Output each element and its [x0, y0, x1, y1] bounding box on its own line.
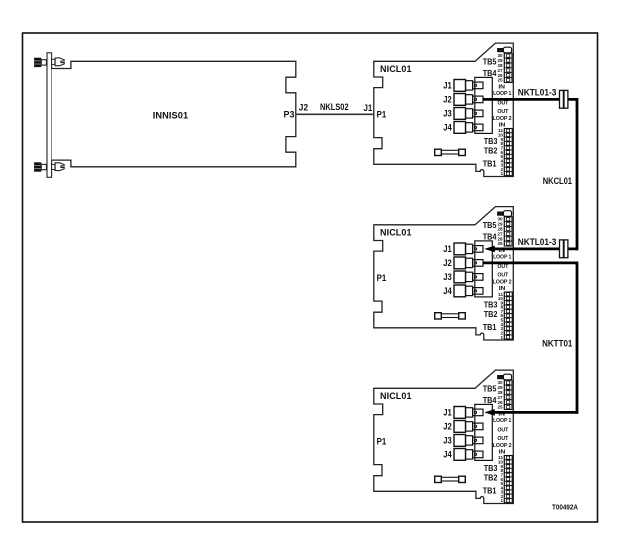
module NICL01 #2 outline	[374, 207, 514, 340]
wire: NKTL01-3 cable into NICL01#2 J1 (IN LOOP 1)	[490, 247, 578, 250]
svg-text:NKLS02: NKLS02	[320, 102, 349, 112]
wire: NKCL01 trunk cable (vertical)	[576, 98, 579, 250]
terminal block strip TB3/TB2/TB1 (terminals 11-1) #1	[504, 129, 512, 176]
svg-text:1: 1	[500, 498, 503, 503]
fuse F2 (bottom) #3	[435, 476, 466, 482]
terminal numbers 30-25 #2	[497, 217, 503, 247]
svg-text:J4: J4	[443, 286, 452, 296]
connector jack J4 receptacle #1	[473, 124, 483, 131]
connector jack J1 receptacle #2	[473, 246, 483, 253]
connector plug J4 #3	[454, 449, 477, 461]
svg-text:TB1: TB1	[483, 487, 497, 496]
connector plug J2 #1	[454, 94, 477, 106]
arrowhead into NICL01#3 J1	[484, 409, 495, 416]
module INNIS01 outline	[52, 61, 296, 167]
svg-text:J1: J1	[443, 408, 452, 418]
svg-text:NICL01: NICL01	[380, 391, 412, 402]
connector mounting panel #3	[475, 404, 493, 460]
connector plug J2 #2	[454, 257, 477, 269]
cable connector pair (NKCL01 to middle NKTL01-3)	[560, 240, 568, 258]
svg-text:TB4: TB4	[483, 232, 497, 241]
connector plug J2 #3	[454, 421, 477, 433]
top screw knob	[34, 58, 46, 67]
svg-text:NKTT01: NKTT01	[542, 338, 572, 348]
connector plug J4 #2	[454, 285, 477, 297]
connector plug J1 #3	[454, 407, 477, 419]
svg-text:TB4: TB4	[483, 396, 497, 405]
svg-text:OUT: OUT	[497, 428, 509, 434]
svg-text:J1: J1	[364, 103, 373, 113]
svg-text:J2: J2	[299, 103, 308, 113]
svg-text:TB2: TB2	[484, 473, 498, 482]
terminal numbers 11-1 #1	[498, 128, 504, 176]
svg-text:OUT: OUT	[497, 436, 509, 442]
connector jack J1 receptacle #1	[473, 82, 483, 89]
cable NKLS02 (INNIS01 P3/J2 to NICL01 J1/P1)	[296, 113, 374, 115]
svg-text:NICL01: NICL01	[380, 228, 412, 239]
terminal block strip TB3/TB2/TB1 (terminals 11-1) #2	[504, 292, 512, 339]
wire: NKTT01 cable into NICL01#3 J1 (IN LOOP 1)	[490, 411, 578, 414]
fuse F1 (top) #1	[497, 47, 512, 53]
wire: NKTL01-3 cable out of NICL01#1 J2 (OUT LOOP 1)	[483, 98, 577, 101]
svg-text:IN: IN	[498, 84, 505, 90]
svg-text:J3: J3	[443, 109, 452, 119]
svg-text:T00492A: T00492A	[552, 504, 578, 511]
svg-text:J1: J1	[443, 244, 452, 254]
svg-text:LOOP 1: LOOP 1	[493, 418, 511, 424]
connector jack J4 receptacle #2	[473, 288, 483, 295]
svg-text:1: 1	[500, 335, 503, 340]
svg-text:TB5: TB5	[483, 385, 497, 394]
svg-text:LOOP 2: LOOP 2	[493, 443, 512, 449]
top latch	[52, 58, 65, 66]
svg-text:NICL01: NICL01	[380, 64, 412, 75]
connector jack J3 receptacle #2	[473, 274, 483, 281]
svg-text:LOOP 1: LOOP 1	[493, 254, 511, 260]
bottom screw knob	[34, 162, 46, 171]
connector plug J3 #2	[454, 271, 477, 283]
connector jack J3 receptacle #1	[473, 110, 483, 117]
connector jack J2 receptacle #3	[473, 423, 483, 430]
svg-text:J2: J2	[443, 258, 452, 268]
fuse F2 (bottom) #1	[435, 149, 466, 155]
svg-text:J2: J2	[443, 422, 452, 432]
connector plug J4 #1	[454, 122, 477, 134]
svg-text:NKTL01-3: NKTL01-3	[518, 88, 557, 98]
module NICL01 #3 outline	[374, 370, 514, 503]
svg-text:TB4: TB4	[483, 69, 497, 78]
terminal numbers 30-25 #3	[497, 380, 503, 410]
svg-text:25: 25	[497, 405, 503, 410]
svg-text:IN: IN	[499, 123, 506, 129]
connector jack J1 receptacle #3	[473, 409, 483, 416]
cable connector pair (top NKTL01-3 to NKCL01)	[560, 90, 568, 108]
connector jack J3 receptacle #3	[473, 437, 483, 444]
terminal numbers 11-1 #2	[498, 292, 504, 340]
wire: NKTT01 cable (vertical)	[576, 262, 579, 414]
fuse F2 (bottom) #2	[435, 313, 466, 319]
arrowhead into NICL01#2 J1	[484, 246, 495, 253]
bottom latch	[52, 163, 65, 171]
connector plug J1 #2	[454, 243, 477, 255]
svg-text:J1: J1	[443, 81, 452, 91]
connector jack J4 receptacle #3	[473, 451, 483, 458]
module NICL01 #1 outline	[374, 43, 514, 176]
svg-text:LOOP 1: LOOP 1	[493, 91, 511, 97]
terminal block strip TB5/TB4 (terminals 30-25) #1	[504, 53, 512, 82]
connector mounting panel #2	[475, 241, 493, 297]
svg-text:TB2: TB2	[484, 146, 498, 155]
svg-text:TB5: TB5	[483, 58, 497, 67]
svg-text:J3: J3	[443, 436, 452, 446]
svg-text:TB1: TB1	[483, 323, 497, 332]
connector plug J1 #1	[454, 80, 477, 92]
connector jack J2 receptacle #1	[473, 96, 483, 103]
svg-text:TB3: TB3	[484, 464, 498, 473]
svg-text:J2: J2	[443, 95, 452, 105]
fuse F1 (top) #3	[497, 374, 512, 380]
terminal block strip TB5/TB4 (terminals 30-25) #2	[504, 217, 512, 246]
svg-text:P1: P1	[377, 109, 387, 119]
svg-text:TB1: TB1	[483, 160, 497, 169]
wire: NKTT01 cable out of NICL01#2 J2 (OUT LOOP 1)	[483, 261, 577, 264]
svg-text:P1: P1	[377, 436, 387, 446]
faceplate bar of INNIS01	[47, 53, 52, 178]
svg-text:P1: P1	[377, 273, 387, 283]
svg-text:1: 1	[500, 171, 503, 176]
svg-text:P3: P3	[284, 109, 295, 119]
svg-text:J3: J3	[443, 272, 452, 282]
connector plug J3 #1	[454, 108, 477, 120]
svg-text:OUT: OUT	[497, 109, 509, 115]
terminal numbers 11-1 #3	[498, 455, 504, 503]
svg-text:NKTL01-3: NKTL01-3	[518, 237, 557, 247]
svg-text:IN: IN	[499, 450, 506, 456]
terminal numbers 30-25 #1	[497, 53, 503, 82]
svg-text:J4: J4	[443, 450, 452, 460]
svg-text:OUT: OUT	[497, 264, 509, 270]
fuse F1 (top) #2	[497, 211, 512, 217]
svg-text:J4: J4	[443, 123, 452, 133]
terminal block strip TB5/TB4 (terminals 30-25) #3	[504, 380, 512, 409]
svg-text:25: 25	[497, 78, 503, 83]
svg-text:OUT: OUT	[497, 101, 509, 107]
svg-text:IN: IN	[499, 286, 506, 292]
svg-text:OUT: OUT	[497, 272, 509, 278]
svg-text:25: 25	[497, 241, 503, 246]
svg-text:NKCL01: NKCL01	[543, 176, 572, 186]
connector mounting panel #1	[475, 77, 493, 133]
svg-text:LOOP 2: LOOP 2	[493, 280, 512, 286]
svg-text:LOOP 2: LOOP 2	[493, 116, 512, 122]
connector plug J3 #3	[454, 435, 477, 447]
svg-text:TB2: TB2	[484, 310, 498, 319]
svg-text:INNIS01: INNIS01	[153, 111, 189, 122]
svg-text:TB5: TB5	[483, 221, 497, 230]
connector jack J2 receptacle #2	[473, 260, 483, 267]
svg-text:TB3: TB3	[484, 301, 498, 310]
terminal block strip TB3/TB2/TB1 (terminals 11-1) #3	[504, 456, 512, 503]
svg-text:TB3: TB3	[484, 137, 498, 146]
